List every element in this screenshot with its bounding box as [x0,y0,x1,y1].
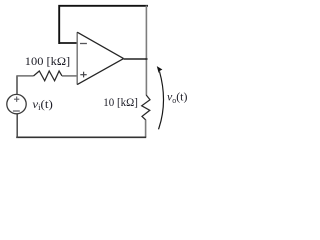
resistor R1 100 kOhm [34,71,62,81]
svg-text:10 [kΩ]: 10 [kΩ] [103,95,138,109]
wire left rail upper lead [16,76,18,95]
arrowhead vo [157,66,163,73]
arrow vo arc [159,72,164,130]
resistor R2 10 kOhm [142,95,150,120]
source plus mark [14,97,19,102]
op-amp bottom edge [77,59,123,85]
wire right vertical gray rail [145,6,147,96]
wire inverting input [59,42,77,44]
op-amp minus mark [80,43,87,45]
wire feedback top [59,6,147,43]
wire left rail lower lead [16,114,18,138]
junction output node [145,58,147,60]
wire noninverting right [62,75,77,77]
op-amp top edge [77,32,123,58]
op-amp plus mark [80,72,86,78]
wire right vertical lower segment [145,120,147,138]
svg-text:vi(t): vi(t) [32,97,52,112]
source Vi circle [7,94,26,113]
source minus mark [13,110,20,112]
wire bottom [16,136,146,138]
svg-text:100 [kΩ]: 100 [kΩ] [25,54,70,68]
op-amp U1 triangle [77,32,123,84]
svg-text:vo(t): vo(t) [167,90,187,105]
wire output [124,58,147,60]
wire noninverting left [16,75,33,77]
op-amp left edge [76,32,78,84]
